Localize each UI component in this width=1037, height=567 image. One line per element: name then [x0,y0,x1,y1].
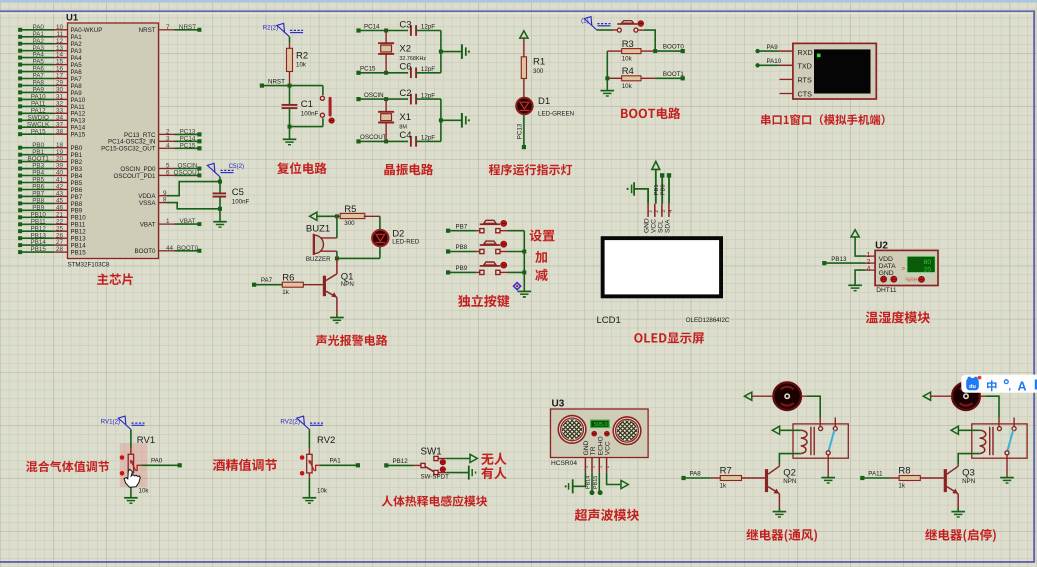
led D2 LED-RED [372,230,388,246]
power arrow relay coil Q3 [958,429,979,431]
svg-text:12pF: 12pF [421,24,435,31]
svg-text:NRST: NRST [139,27,156,34]
wire PA1 to U1 pin 11 [20,36,53,38]
resistor R3 10k [607,50,621,52]
svg-text:PC13: PC13 [517,123,524,139]
svg-text:38: 38 [56,128,64,135]
button PB8 [480,249,484,253]
svg-text:OSCOUT: OSCOUT [360,134,387,141]
svg-text:10k: 10k [139,488,150,495]
wire PA11 to U1 pin 32 [20,105,53,107]
label 晶振电路 [384,164,433,176]
HCSR04 indicator leds [592,431,597,436]
label 复位电路 [277,162,327,174]
buzzer BUZ1 [320,237,337,239]
ground X2 bus [461,44,463,59]
wire vcc to R5 and BUZ1 [316,215,337,217]
U1 pin 30 (PA9) [54,91,68,93]
reset button [322,86,324,96]
svg-text:PB4: PB4 [32,170,44,177]
svg-text:1: 1 [166,218,170,225]
svg-text:31: 31 [56,94,64,101]
wire RV1 wiper to PA0 [141,464,180,466]
IME red dot [978,376,982,380]
U1 pin 7 NRST [159,29,175,31]
U1 pin 45 (PB8) [54,202,68,204]
svg-text:C2: C2 [399,88,411,99]
label 声光报警电路 [316,335,388,346]
capacitor C5 [219,182,221,194]
power arrow SW1 (无人) [438,458,446,460]
svg-text:C5: C5 [232,187,244,198]
wire PB8 to U1 pin 45 [20,202,53,204]
svg-text:40: 40 [56,170,64,177]
ground X1 bus [461,113,463,128]
wire PB15 to U1 pin 28 [20,251,53,253]
svg-text:PA5: PA5 [71,62,83,69]
wire PA9 to RXD [758,50,779,52]
label 混合气体值调节 [26,461,109,472]
U1 pin 6 (OSCOUT_PD1) [159,174,175,176]
svg-text:ECHO: ECHO [597,436,604,455]
svg-text:41: 41 [56,177,64,184]
U1 pin 16 (PA6) [54,71,68,73]
wire PC15 row [359,72,409,74]
wire PA7 to U1 pin 17 [20,78,53,80]
motor Q2 load [773,382,801,410]
wire PB10 to U1 pin 21 [20,216,53,218]
wire SDA (PB0) to LCD1 [668,175,670,203]
svg-text:STM32F103C8: STM32F103C8 [68,262,111,269]
svg-text:PB5: PB5 [71,180,83,187]
svg-text:PA2: PA2 [71,41,83,48]
IME edge sliver icon [1035,380,1037,390]
power arrow motor Q3 [923,392,930,400]
U1 pin 38 (PA15) [54,133,68,135]
svg-text:PB10: PB10 [71,215,87,222]
svg-text:C5(2): C5(2) [229,163,244,170]
U1 pin 9 (VDDA) [159,195,168,197]
svg-text:BOOT1: BOOT1 [28,156,50,163]
resistor R4 10k [607,77,621,79]
transistor Q1 NPN [336,258,338,273]
U1 pin 21 (PB10) [54,216,68,218]
wire NRST net [175,29,200,31]
svg-text:NRST: NRST [179,24,196,31]
ground under RV2 [308,473,310,478]
wire NRST down to C1 [289,86,291,105]
svg-text:U3: U3 [552,399,565,410]
svg-text:32.768KHz: 32.768KHz [399,56,426,62]
svg-text:17: 17 [56,73,64,80]
display LCD1 OLED12864I2C [601,236,723,298]
DHT11 indicator dots [881,276,887,282]
wire PA15 to U1 pin 38 [20,133,53,135]
relay Q3 switch [997,427,1001,431]
wire BOOT0 out [653,49,657,53]
svg-text:LED-RED: LED-RED [392,238,420,245]
U1 pin 18 (PB0) [54,147,68,149]
transistor Q3 NPN [944,469,947,492]
wire right bus X1 [440,99,442,141]
HCSR04 pin stubs [584,458,586,473]
virtual terminal screen [814,49,871,93]
svg-text:12: 12 [56,38,64,45]
led D1 LED-GREEN [523,79,525,99]
IME punctuation icon [1004,380,1008,384]
wire OSCIN row [359,98,409,100]
svg-text:PA0: PA0 [32,24,44,31]
svg-text:,: , [1009,382,1012,392]
svg-text:PA4: PA4 [71,55,83,62]
svg-text:PC15: PC15 [180,142,196,149]
U1 pin 26 (PB13) [54,237,68,239]
transistor Q2 NPN [765,469,768,492]
power arrow buzzer [310,212,317,220]
button PB9 [480,270,484,274]
svg-text:1k: 1k [282,289,289,296]
svg-text:2: 2 [867,259,871,266]
power arrow OLED VCC [652,161,660,169]
svg-text:PB9: PB9 [71,208,83,215]
svg-text:PA5: PA5 [32,59,44,66]
svg-text:21: 21 [56,211,64,218]
U1 pin 43 (PB7) [54,195,68,197]
svg-text:HCSR04: HCSR04 [551,460,577,467]
svg-text:PB7: PB7 [456,223,468,230]
svg-text:SWCLK: SWCLK [27,121,50,128]
svg-text:28: 28 [56,246,64,253]
svg-text:DHT11: DHT11 [876,287,897,294]
svg-text:PB15: PB15 [71,250,87,257]
svg-text:3: 3 [661,210,667,213]
wire PB1 to U1 pin 19 [20,154,53,156]
probe RV2(2) [304,425,309,430]
svg-text:R8: R8 [898,465,910,476]
crystal X1 [385,99,387,112]
svg-text:1: 1 [591,465,596,468]
virtual terminal 串口1 window [793,43,876,99]
svg-text:PB1: PB1 [654,184,660,195]
svg-text:PB5: PB5 [32,177,44,184]
svg-text:PB10: PB10 [30,211,46,218]
svg-text:BUZ1: BUZ1 [306,224,330,235]
svg-text:80: 80 [924,259,932,266]
ground relay switch Q3 [1006,476,1008,478]
svg-text:du: du [969,384,976,390]
ground under RV1 [130,473,132,478]
relay Q2 coil [801,430,807,453]
wire PA4 to U1 pin 14 [20,57,53,59]
svg-text:PB4: PB4 [71,173,83,180]
selection marker [514,283,521,290]
label OLED显示屏 [634,332,704,343]
svg-text:1: 1 [647,210,653,213]
svg-text:PC14-OSC32_IN: PC14-OSC32_IN [108,139,155,146]
ground buttons bus [518,290,532,292]
svg-text:4: 4 [668,210,674,213]
RV2 selection handles [300,455,305,460]
svg-text:GND: GND [583,440,590,455]
ground relay switch Q2 [827,476,829,478]
svg-text:D1: D1 [538,96,550,107]
svg-text:X2: X2 [399,44,411,55]
wire PA10 to U1 pin 31 [20,98,53,100]
svg-text:PA7: PA7 [32,73,44,80]
svg-text:PA9: PA9 [767,44,779,51]
svg-text:R2: R2 [296,51,308,62]
wire button PB7 to bus [500,230,507,232]
svg-text:R3: R3 [622,39,634,50]
power arrow D1 [520,31,528,38]
svg-text:1: 1 [598,465,603,468]
chip U1 STM32F103C8 body [68,23,159,259]
U1 pin 27 (PB14) [54,244,68,246]
label 串口1窗口（模拟手机端） [761,114,885,125]
svg-text:U1: U1 [66,13,79,24]
relay Q3 box [972,424,1027,458]
svg-text:BOOT0: BOOT0 [135,248,157,255]
U1 pin 15 (PA5) [54,64,68,66]
wire GND to LCD1 [634,189,648,204]
svg-text:10k: 10k [296,62,307,69]
U1 pin 20 (PB2) [54,161,68,163]
wire PB7 to button [448,230,476,232]
relay Q2 box [793,424,848,458]
svg-text:8: 8 [163,197,167,204]
svg-text:PB14: PB14 [586,476,592,489]
svg-text:R2(2): R2(2) [263,25,278,32]
wire OSCOUT net [175,174,200,176]
wire PA6 to U1 pin 16 [20,71,53,73]
svg-text:(1): (1) [581,18,589,25]
wire D2 to collector node [379,246,381,259]
svg-text:12pF: 12pF [421,135,435,142]
svg-text:25: 25 [56,225,64,232]
U1 pin 41 (PB5) [54,182,68,184]
svg-text:PA1: PA1 [330,458,342,465]
svg-text:SW-SPDT: SW-SPDT [421,474,450,481]
wire VBAT net [175,223,200,225]
capacitor C3 12pF [410,25,412,36]
resistor R1 300 [523,37,525,56]
wire TR to PB14 [591,473,593,493]
wire PA9 to U1 pin 30 [20,91,53,93]
svg-text:SDA: SDA [664,219,671,233]
svg-text:PA9: PA9 [32,87,44,94]
label 酒精值调节 [213,459,277,471]
wire BOOT1 to U1 pin 20 [20,161,53,163]
svg-text:R1: R1 [533,57,545,68]
HCSR04 display [590,420,610,429]
svg-text:C3: C3 [399,19,411,30]
svg-text:PB14: PB14 [30,239,46,246]
wire PC14 net [175,140,200,142]
potentiometer RV2 [308,430,310,449]
svg-text:R4: R4 [622,66,634,77]
svg-text:X1: X1 [399,112,411,123]
svg-text:R7: R7 [720,465,732,476]
ground SW1 (有人) [438,472,446,474]
wire boot button to BOOT0 [638,29,644,31]
U1 pin 10 (PA0-WKUP) [54,29,68,31]
svg-text:SW1: SW1 [421,447,442,458]
svg-text:PB15: PB15 [30,246,46,253]
IME Baidu logo [968,377,972,381]
svg-text:PA10: PA10 [71,97,86,104]
svg-text:Q3: Q3 [962,467,975,478]
wire PB4 to U1 pin 40 [20,175,53,177]
power arrow motor Q2 [745,392,752,400]
resistor R8 1k [862,477,889,479]
wire PB12 to U1 pin 25 [20,230,53,232]
svg-text:PB7: PB7 [71,194,83,201]
svg-text:NPN: NPN [341,281,354,288]
svg-text:CTS: CTS [798,89,813,98]
svg-text:PB0: PB0 [32,142,44,149]
wire PB12 to SW1 [386,464,413,466]
U1 pin 12 (PA2) [54,43,68,45]
wire PB8 to button [448,251,476,253]
U1 pin 31 (PA10) [54,98,68,100]
wire PB11 to U1 pin 22 [20,223,53,225]
U1 pin 37 (PA14) [54,126,68,128]
wire C1 bottom node [289,108,291,126]
svg-text:PB12: PB12 [393,458,409,465]
U1 pin 39 (PB3) [54,168,68,170]
svg-text:LED-GREEN: LED-GREEN [538,110,574,117]
capacitor C6 12pF [410,68,412,79]
wire PA5 to U1 pin 15 [20,64,53,66]
svg-text:C6: C6 [399,62,411,73]
svg-text:8M: 8M [399,125,407,131]
wire PB5 to U1 pin 41 [20,182,53,184]
svg-text:PB0: PB0 [71,145,83,152]
svg-text:7: 7 [166,24,170,31]
svg-text:SCL: SCL [657,220,664,233]
label 独立按键 [458,295,509,307]
svg-text:PA7: PA7 [71,76,83,83]
ground DHT11 [848,284,862,286]
wire BOOT0 net [175,250,200,252]
svg-text:R6: R6 [282,272,294,283]
svg-text:PB12: PB12 [71,229,87,236]
svg-text:PA0-WKUP: PA0-WKUP [71,27,103,34]
svg-text:10k: 10k [317,488,328,495]
IME toolbar panel [961,375,1037,393]
svg-text:1: 1 [584,465,589,468]
label 温湿度模块 [866,311,930,323]
capacitor C2 12pF [410,94,412,105]
wire PB13 to DATA [824,262,865,264]
U1 pin 8 (VSSA) [159,202,168,204]
wire PB9 to button [448,271,476,273]
svg-text:PB8: PB8 [456,244,468,251]
label 继电器(通风) [746,529,817,542]
svg-text:PB2: PB2 [71,159,83,166]
wire PB13 to U1 pin 26 [20,237,53,239]
svg-text:DATA: DATA [879,263,897,270]
label 人体热释电感应模块 [382,495,488,506]
svg-text:3: 3 [166,135,170,142]
wire SWDIO to U1 pin 34 [20,119,53,121]
label 程序运行指示灯 [489,164,572,176]
svg-text:PA8: PA8 [690,471,702,478]
wire coil to collector Q3 [958,454,979,465]
svg-text:10: 10 [56,24,64,31]
wire NRST node [262,85,323,87]
svg-text:1k: 1k [898,482,905,489]
svg-text:VDD: VDD [879,256,893,263]
ground OLED GND [633,182,635,196]
U1 pin 14 (PA4) [54,57,68,59]
svg-text:300: 300 [533,68,544,75]
svg-text:RXD: RXD [798,48,813,57]
U1 pin 5 (OSCIN_PD0) [159,168,175,170]
probe C5(2) [219,177,221,182]
svg-text:PA10: PA10 [767,58,782,65]
U1 pin 2 (PC13_RTC) [159,133,175,135]
wire VDD [855,236,866,256]
svg-text:VBAT: VBAT [140,222,156,229]
wire PA10 to TXD [758,64,779,66]
LCD1 pin stubs [647,204,649,217]
probe R2(2) [285,32,290,37]
wire OSCIN net [175,168,200,170]
U1 pin 17 (PA7) [54,78,68,80]
svg-text:PA2: PA2 [32,38,44,45]
label 主芯片 [97,273,133,285]
wire motor to relay switch Q2 [801,395,807,397]
U1 pin 28 (PB15) [54,251,68,253]
power arrow relay coil Q2 [780,429,801,431]
svg-text:PA0: PA0 [151,458,163,465]
svg-text:10k: 10k [622,56,633,63]
probe RV1(2) [126,425,131,430]
svg-text:PB9: PB9 [456,265,468,272]
wire motor to relay switch Q3 [980,395,986,397]
mouse hand cursor [124,469,140,487]
svg-text:PB9: PB9 [32,204,44,211]
svg-text:VCC: VCC [650,219,657,233]
HCSR04 left transducer [558,416,586,444]
svg-text:4: 4 [867,266,871,273]
svg-text:PA7: PA7 [261,277,273,284]
U1 pin 25 (PB12) [54,230,68,232]
svg-text:C1: C1 [301,99,313,110]
svg-text:RV1: RV1 [137,435,155,446]
sensor U2 DHT11 body [875,250,938,285]
wire PC14 row [359,30,409,32]
motor Q3 load [952,382,980,410]
svg-text:VBAT: VBAT [180,218,196,225]
wire GND [855,270,866,285]
U1 pin 3 (PC14-OSC32_IN) [159,140,175,142]
svg-text:6: 6 [166,170,170,177]
svg-text:GND: GND [879,270,894,277]
wire RV2 wiper to PA1 [320,464,358,466]
wire SWCLK to U1 pin 37 [20,126,53,128]
ground under Q3 [957,508,959,512]
wire D1 to PC13 [523,114,525,147]
svg-text:PA15: PA15 [31,128,46,135]
wire ECHO to PB15 [598,473,600,493]
wire PA0 to U1 pin 10 [20,29,53,31]
svg-text:PB7: PB7 [32,191,44,198]
svg-text:RV2(2): RV2(2) [280,419,300,426]
svg-text:VSSA: VSSA [139,200,156,207]
svg-text:PA12: PA12 [71,111,86,118]
